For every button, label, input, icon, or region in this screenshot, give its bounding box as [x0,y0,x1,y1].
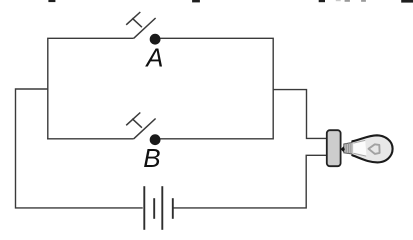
svg-text:B: B [143,143,160,173]
svg-text:A: A [144,45,163,73]
